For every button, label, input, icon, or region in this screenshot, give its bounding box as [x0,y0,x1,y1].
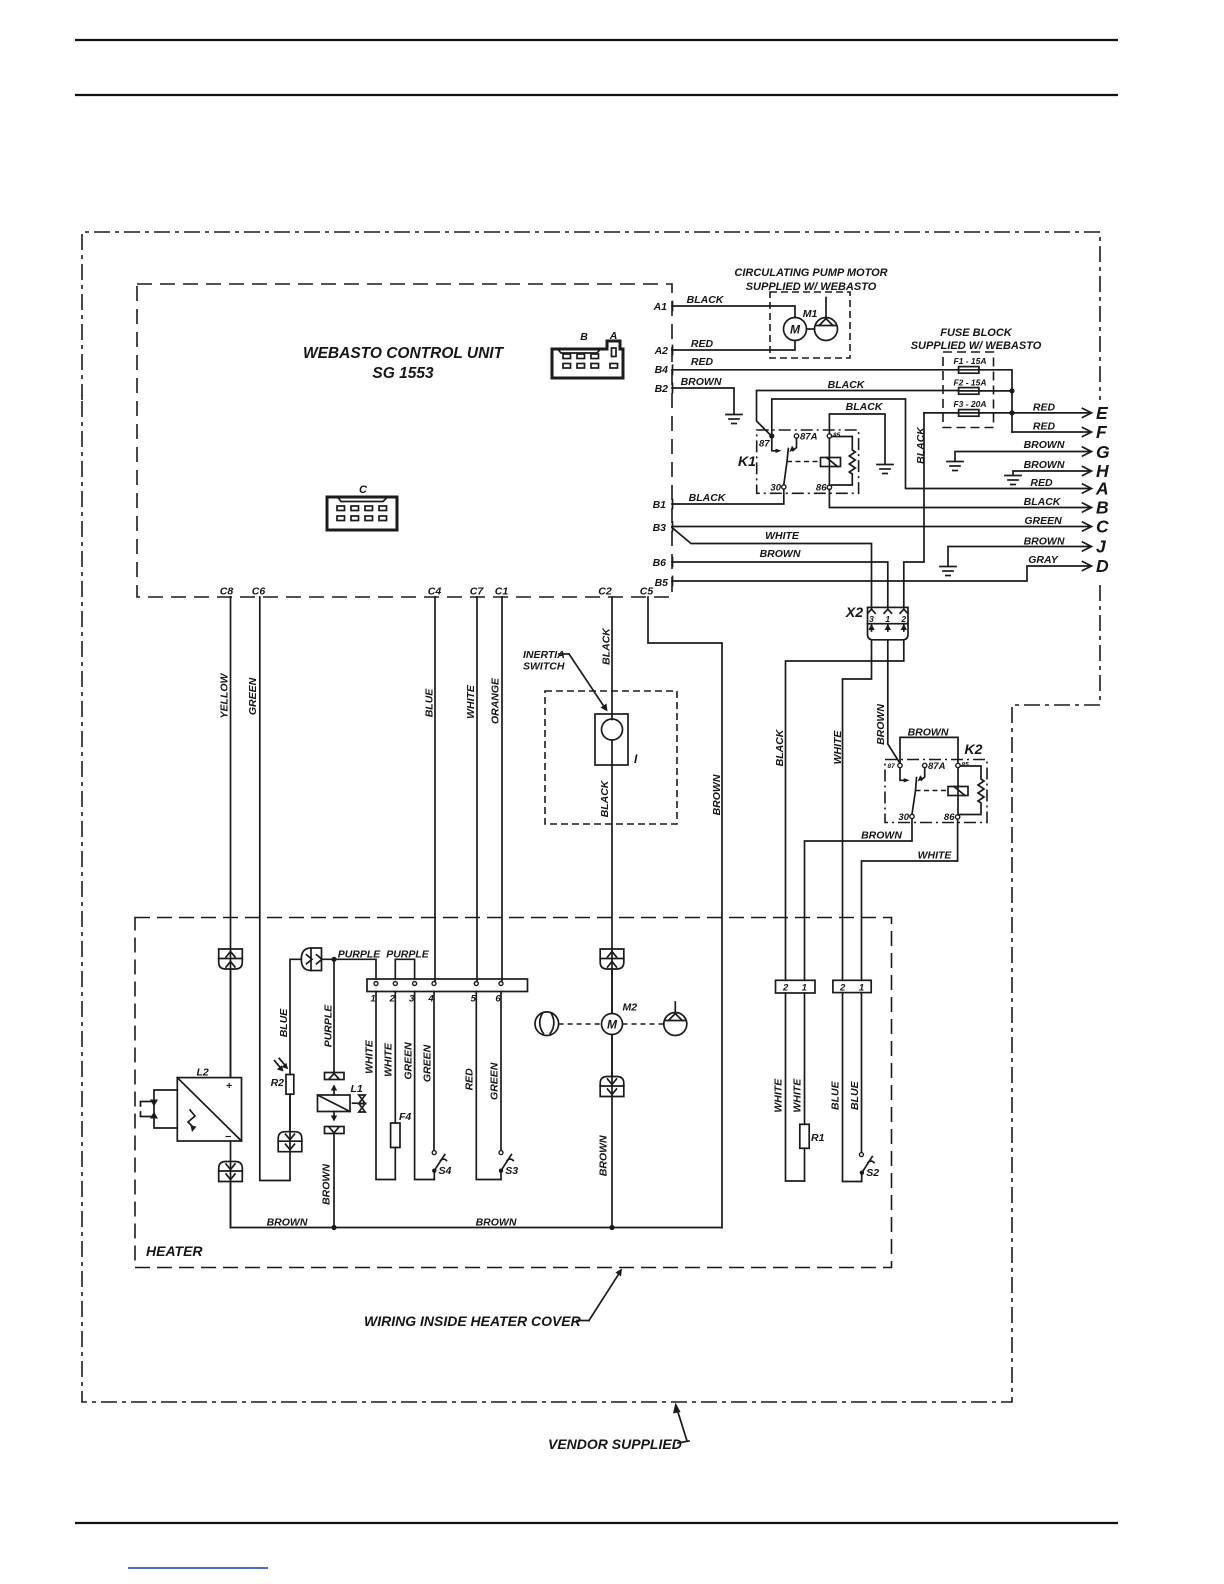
label VENDOR SUPPLIED with leader [548,1403,689,1453]
L2 left connector [141,1090,178,1128]
svg-text:A: A [1095,479,1109,499]
wire PURPLE down to L1 [323,959,335,1072]
K1 terminal 30 [770,483,786,494]
pin label B5 [655,577,669,589]
heater connector 2-1 left [776,980,816,993]
wire BROWN K2 87-85 jumper [900,726,958,763]
svg-text:G: G [1096,442,1110,462]
wire RED terminal 5 down [463,992,501,1180]
svg-text:WHITE: WHITE [772,1078,784,1113]
svg-text:F1 - 15A: F1 - 15A [953,356,986,366]
bullet connector on C8 wire [219,949,243,1078]
wire RED to E [1012,402,1109,424]
svg-text:M1: M1 [803,308,818,320]
svg-text:RED: RED [691,356,714,368]
svg-text:BLACK: BLACK [1024,496,1062,508]
inertia switch dashed box [545,691,677,824]
wire L2 bottom down [230,1141,232,1228]
vendor supplied outer dashed boundary [82,232,1100,1402]
wire PURPLE jumper terminals 2-3 [386,948,430,979]
svg-text:BLACK: BLACK [774,728,786,766]
svg-text:A: A [609,330,618,342]
svg-text:SUPPLIED W/ WEBASTO: SUPPLIED W/ WEBASTO [746,281,877,293]
switch S3 [499,1151,518,1180]
bullet connector below L2 [219,1162,243,1228]
pin label B6 [653,557,667,569]
svg-text:S4: S4 [439,1165,452,1177]
wire BLACK K1-87 up and right to junction toward A [772,399,1090,489]
svg-text:BROWN: BROWN [321,1164,333,1205]
svg-text:L1: L1 [351,1083,363,1095]
motor M2 [602,1002,638,1035]
pin label C5 [640,586,654,598]
dome connector below M2 [600,1035,624,1097]
wire X2 pin3 WHITE down into heater [832,640,871,981]
connector X2 [845,604,908,640]
pin label B2 [655,383,669,395]
wire C1 ORANGE down [490,597,502,984]
svg-text:1: 1 [802,983,807,994]
relay K1 dashed box [738,430,859,493]
page top rule 1 [75,39,1118,41]
wire WHITE conn1 pin2 down [772,993,804,1181]
svg-text:BLACK: BLACK [601,627,613,665]
pin label C6 [252,586,266,598]
pin ticks on control unit right edge [672,302,674,586]
terminal strip [367,979,528,1005]
ground for B2 [726,415,742,424]
switch S4 [432,1151,451,1180]
svg-text:HEATER: HEATER [146,1243,203,1259]
svg-text:85: 85 [833,432,841,439]
svg-text:C: C [359,484,368,496]
solenoid valve L1 [318,1083,366,1112]
wire BROWN to H with ground [1005,459,1109,485]
svg-text:B4: B4 [655,364,669,376]
svg-text:F2 - 15A: F2 - 15A [953,378,986,388]
svg-text:C8: C8 [220,586,234,598]
svg-text:L2: L2 [197,1067,209,1079]
K2 terminal 87 [888,763,903,770]
svg-text:GREEN: GREEN [421,1044,433,1082]
svg-text:GREEN: GREEN [247,677,259,715]
pin label B1 [653,499,667,511]
svg-text:+: + [226,1080,232,1092]
K2 coil link dashed [916,790,949,792]
heater dashed box [135,918,892,1268]
pin label A1 [653,301,668,313]
wire BLACK from F3 down to X2 pin 2 [904,413,927,610]
svg-text:K2: K2 [965,741,983,757]
arrow out of L1 [331,1112,337,1122]
svg-text:WHITE: WHITE [364,1039,376,1074]
pin label C2 [598,586,612,598]
svg-text:BLACK: BLACK [846,401,884,413]
svg-text:F4: F4 [399,1111,411,1123]
wire RED to F [1012,421,1108,443]
L1 upper plate connector [325,1073,345,1080]
svg-text:B3: B3 [653,522,667,534]
K1 terminal 87 [759,433,774,449]
svg-text:BROWN: BROWN [861,830,902,842]
wire GREEN terminal 6 with switch S3 [488,992,501,1151]
svg-text:CIRCULATING PUMP MOTOR: CIRCULATING PUMP MOTOR [734,267,887,279]
svg-text:BLACK: BLACK [599,779,611,817]
K1 terminal 85 [827,432,840,439]
page bottom rule [75,1522,1118,1524]
svg-text:M2: M2 [623,1002,638,1014]
pin label C7 [470,586,485,598]
svg-text:B: B [580,331,588,343]
svg-text:VENDOR SUPPLIED: VENDOR SUPPLIED [548,1436,682,1452]
wire BROWN M2 to rail [597,1035,614,1231]
svg-text:RED: RED [1030,477,1053,489]
title FUSE BLOCK SUPPLIED W/ WEBASTO [911,327,1042,352]
fan symbol [535,1012,559,1036]
svg-text:F: F [1096,422,1108,442]
resistor R1 [791,993,824,1181]
svg-text:GREEN: GREEN [402,1042,414,1080]
svg-text:85: 85 [962,762,970,769]
svg-text:B: B [1096,498,1109,518]
svg-text:C1: C1 [495,586,509,598]
wire WHITE terminal 1 down [364,992,396,1180]
svg-text:J: J [1096,537,1107,557]
svg-text:BLUE: BLUE [278,1008,290,1038]
svg-text:WHITE: WHITE [791,1078,803,1113]
dome connector on R2 chain [278,1132,302,1152]
K2 terminal 86 [944,812,960,823]
label WEBASTO CONTROL UNIT SG 1553 [303,345,505,382]
svg-text:BLACK: BLACK [689,492,727,504]
svg-text:86: 86 [816,483,827,494]
label INERTIA SWITCH with leader [523,649,608,712]
svg-text:BROWN: BROWN [681,376,722,388]
svg-text:BLUE: BLUE [849,1080,861,1110]
wire B1 BLACK to K1-30 [672,489,784,504]
svg-text:WHITE: WHITE [765,530,800,542]
svg-text:C4: C4 [428,586,442,598]
K2 terminal 87A [923,761,946,772]
wire PURPLE junction to terminal 1 [322,948,382,979]
svg-text:BLACK: BLACK [828,379,866,391]
wire BROWN to J with ground [940,536,1107,576]
svg-text:C7: C7 [470,586,485,598]
sideways connector to PURPLE [301,948,322,971]
svg-text:87A: 87A [928,761,946,772]
wire C6 GREEN down [247,597,290,1181]
svg-text:BROWN: BROWN [760,548,801,560]
svg-text:RED: RED [463,1068,475,1091]
svg-text:E: E [1096,403,1109,423]
svg-text:K1: K1 [738,453,756,469]
wire B5 GRAY to D [672,554,1109,581]
svg-text:B6: B6 [653,557,667,569]
pin label C4 [428,586,442,598]
K1 coil link dashed [787,461,820,463]
wire BLACK inertia switch down [599,740,612,1014]
wire B2 BROWN to ground [672,376,734,414]
fuse F1 - 15A [953,356,1012,432]
inertia switch I [595,714,638,766]
wire K1-85 to ground [829,414,885,464]
svg-text:1: 1 [370,994,375,1005]
wire WHITE K2-86 down into heater [862,819,958,980]
wire WHITE terminal 2 with fuse F4 [383,992,412,1180]
svg-text:WHITE: WHITE [465,684,477,719]
svg-text:S3: S3 [505,1165,518,1177]
svg-text:M: M [607,1018,618,1032]
Webasto control unit dashed box [137,284,672,597]
svg-text:F3 - 20A: F3 - 20A [953,399,986,409]
svg-text:30: 30 [898,812,909,823]
svg-text:INERTIA: INERTIA [523,649,565,661]
svg-text:C2: C2 [598,586,612,598]
wire C4 BLUE down [423,597,435,984]
dashed shaft M2 to pump [623,1023,664,1025]
svg-text:BROWN: BROWN [1024,459,1065,471]
svg-text:RED: RED [1033,421,1056,433]
svg-text:BROWN: BROWN [597,1135,609,1176]
wire BROWN K2-30 down into heater [805,819,913,981]
svg-text:BROWN: BROWN [875,704,887,745]
wire A2 RED to M1 [672,338,795,350]
fuse block dashed box [943,352,994,428]
svg-text:D: D [1096,556,1109,576]
connector B/A (8-pin) on control unit [552,330,623,378]
wire BROWN to G with ground [947,439,1110,471]
wire GREEN terminal 3 down [402,992,434,1180]
svg-text:BROWN: BROWN [1024,439,1065,451]
footer blue underline [128,1567,268,1569]
motor M1 [784,308,818,341]
pin label C8 [220,586,234,598]
wire BLUE conn2 pin1 to S2 [849,993,861,1153]
wire C8 YELLOW down [219,597,231,1078]
K2 coil shunt resistor [960,766,984,815]
svg-text:87: 87 [759,439,770,450]
wire C2 BLACK down to inertia switch [601,597,613,720]
flame sensor R2 with light arrows [271,1058,294,1094]
svg-text:GREEN: GREEN [488,1062,500,1100]
wire X2 pin2 BLACK down into heater [774,640,904,981]
svg-text:BLACK: BLACK [915,426,927,464]
label WIRING INSIDE HEATER COVER with leader [364,1269,622,1330]
svg-text:M: M [790,323,801,337]
wire B3 WHITE diagonal to X2 pin 3 [672,528,872,610]
pin label B4 [655,364,669,376]
svg-text:A1: A1 [653,301,668,313]
K1 switch contacts [772,438,797,485]
switch S2 [859,1153,879,1182]
svg-text:1: 1 [885,614,890,624]
wire B6 BROWN to X2 pin 1 [672,548,888,610]
wire GREEN terminal 4 with switch S4 [421,992,434,1151]
relay K2 dashed box [885,741,987,823]
svg-text:C: C [1096,517,1109,537]
svg-text:86: 86 [944,812,955,823]
K2 switch contacts [900,768,925,815]
wire K1-86 down and right BLACK to B [829,490,1090,509]
pin label A2 [654,345,669,357]
svg-text:SUPPLIED W/ WEBASTO: SUPPLIED W/ WEBASTO [911,340,1042,352]
svg-text:GREEN: GREEN [1024,515,1062,527]
dashed shaft fan to M2 [559,1023,602,1025]
fuse F3 - 20A [924,399,1015,416]
svg-text:R1: R1 [811,1132,825,1144]
svg-text:S2: S2 [866,1167,879,1179]
L1 lower plate connector [325,1127,345,1134]
svg-text:BLUE: BLUE [829,1080,841,1110]
svg-text:BLUE: BLUE [423,688,435,718]
svg-text:2: 2 [900,614,906,624]
svg-text:WHITE: WHITE [918,850,953,862]
page top rule 2 [75,94,1118,96]
K1 terminal 87A [794,432,817,443]
svg-text:FUSE BLOCK: FUSE BLOCK [940,327,1013,339]
svg-text:RED: RED [691,338,714,350]
wire RED to A [1030,477,1108,499]
svg-text:X2: X2 [845,604,863,620]
svg-text:SG 1553: SG 1553 [372,365,434,382]
svg-text:3: 3 [869,614,874,624]
circulating pump dashed box [770,292,850,358]
svg-text:B1: B1 [653,499,667,511]
K2 coil [948,768,968,815]
wire B3 GREEN to C [672,515,1109,537]
wire B4 RED to fuse F1 [672,356,959,370]
bullet connector on C2 wire [600,949,624,1014]
svg-text:PURPLE: PURPLE [323,1004,335,1048]
heat exchanger L2 [177,1067,241,1144]
svg-text:2: 2 [782,983,789,994]
svg-text:B2: B2 [655,383,669,395]
wire BLACK K1-87 to fuse F2 [757,379,959,436]
pin label B3 [653,522,667,534]
heater bottom BROWN rail [231,1217,723,1229]
arrow into L1 [331,1085,337,1096]
heater connector 2-1 right [833,980,871,993]
pin label C1 [495,586,509,598]
K2 terminal 85 [956,762,969,769]
ground for K1-85 wire [877,465,893,474]
wire X2 pin1 BROWN down to K2-87 [875,640,899,763]
svg-text:R2: R2 [271,1077,285,1089]
connector C (8-pin) on control unit [327,484,397,530]
K1 coil shunt resistor [832,437,856,486]
svg-text:ORANGE: ORANGE [490,677,502,724]
svg-text:C5: C5 [640,586,654,598]
K1 coil [821,438,841,485]
pump symbol of M2 [664,1002,687,1036]
svg-text:SWITCH: SWITCH [523,661,565,673]
wire C5 down and BROWN to heater bottom rail [648,597,723,1228]
K2 terminal 30 [898,812,914,823]
svg-text:WIRING INSIDE HEATER COVER: WIRING INSIDE HEATER COVER [364,1313,582,1329]
wire BROWN L1 to rail [321,1134,337,1231]
svg-text:WEBASTO CONTROL UNIT: WEBASTO CONTROL UNIT [303,345,505,362]
svg-text:30: 30 [770,483,781,494]
svg-text:GRAY: GRAY [1028,554,1059,566]
K1 terminal 86 [816,483,832,494]
wire BLUE conn2 pin2 down [829,993,861,1182]
wire A1 BLACK to M1 [672,294,795,318]
svg-text:C6: C6 [252,586,266,598]
svg-text:87A: 87A [800,432,818,443]
svg-text:B5: B5 [655,577,669,589]
fuse F2 - 15A [953,378,1014,395]
wire BLUE R2 chain [278,959,301,1131]
svg-text:87: 87 [888,763,896,770]
svg-text:YELLOW: YELLOW [219,672,231,718]
arrow B [1083,498,1109,518]
svg-text:BLACK: BLACK [687,294,725,306]
svg-text:RED: RED [1033,402,1056,414]
title CIRCULATING PUMP MOTOR SUPPLIED W/ WEBASTO [734,267,887,293]
svg-text:WHITE: WHITE [383,1042,395,1077]
pump symbol of M1 [815,298,838,341]
svg-text:A2: A2 [654,345,669,357]
wire C7 WHITE down [465,597,477,984]
